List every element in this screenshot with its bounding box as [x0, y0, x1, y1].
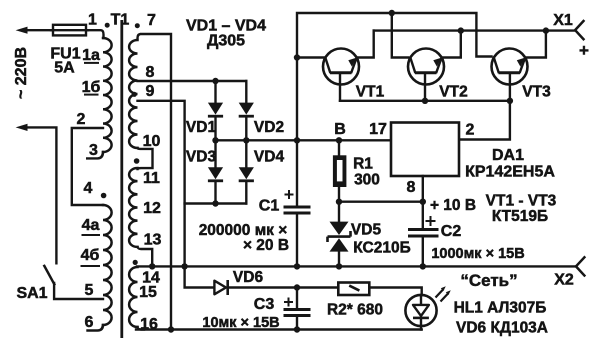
- wire VT2 collector drop: [392, 13, 408, 58]
- svg-text:6: 6: [85, 314, 94, 331]
- svg-text:1а: 1а: [82, 47, 100, 64]
- svg-text:+ 10 В: + 10 В: [430, 197, 476, 214]
- svg-text:15: 15: [139, 284, 157, 301]
- transformer T1 secondary winding section 7-10: [129, 40, 137, 148]
- wire DA1 pin 8: [422, 176, 424, 202]
- node R1 bottom: [336, 199, 342, 205]
- phase dot secondary top: [135, 23, 140, 28]
- svg-text:Х2: Х2: [554, 272, 574, 289]
- svg-text:T1: T1: [111, 12, 130, 29]
- node VD5/neg rail: [336, 263, 342, 269]
- connector X1: [575, 21, 583, 39]
- node C2/neg rail: [420, 263, 426, 269]
- svg-text:12: 12: [143, 200, 161, 217]
- diode VD6: [185, 266, 338, 295]
- transformer T1 primary winding lower section (taps 4-6): [88, 205, 112, 331]
- wire emitter line to X1: [374, 29, 575, 31]
- svg-text:КР142ЕН5А: КР142ЕН5А: [465, 164, 555, 181]
- diode VD4: [239, 140, 254, 203]
- node tap7/bottom rail: [168, 326, 174, 332]
- transformer T1 secondary winding section 11-13: [129, 168, 137, 247]
- node VT1 collector: [294, 54, 300, 60]
- node negative rail to X2: [137, 265, 576, 267]
- svg-text:+: +: [579, 41, 589, 60]
- node VT2 emitter: [458, 27, 464, 33]
- svg-text:8: 8: [407, 179, 416, 196]
- node VD3/bridge bottom: [212, 200, 218, 206]
- svg-text:В: В: [334, 121, 346, 138]
- node middle rail (rectifier output to B and DA1 pin 17): [216, 139, 392, 141]
- node tap8/VD1: [212, 78, 218, 84]
- phase dot secondary 11: [134, 158, 140, 164]
- transformer T1 secondary winding section 14-16: [129, 267, 144, 330]
- phase dot primary 4: [101, 193, 107, 199]
- capacitor C2: [408, 202, 439, 267]
- svg-text:С2: С2: [441, 223, 462, 240]
- svg-text:VT3: VT3: [522, 84, 551, 101]
- svg-text:7: 7: [147, 12, 156, 29]
- svg-text:VD5: VD5: [351, 222, 382, 239]
- svg-text:2: 2: [77, 111, 86, 128]
- mains input arrow (top line to ~220V): [16, 27, 104, 38]
- node bridge bottom rail: [185, 202, 247, 204]
- svg-text:300: 300: [354, 172, 380, 189]
- svg-text:1000мк × 15В: 1000мк × 15В: [431, 246, 524, 262]
- node VT3 base / pin2 riser: [507, 98, 513, 104]
- wire tap8 to rectifier: [138, 80, 247, 82]
- node VD6/C3: [294, 284, 300, 290]
- svg-text:VT1 - VT3: VT1 - VT3: [486, 193, 557, 210]
- svg-text:× 20 В: × 20 В: [243, 237, 289, 254]
- mains input arrow (lower, to switch SA1): [16, 124, 57, 263]
- svg-text:DA1: DA1: [492, 147, 524, 164]
- svg-text:4а: 4а: [82, 217, 100, 234]
- phase dot primary top: [105, 23, 110, 28]
- svg-text:“Сеть”: “Сеть”: [460, 271, 517, 290]
- LED HL1: [405, 286, 450, 329]
- node C1/mid rail: [294, 137, 300, 143]
- svg-text:VD2: VD2: [254, 119, 284, 136]
- transformer T1 primary winding upper section (taps 1-3): [87, 38, 111, 158]
- svg-text:1: 1: [88, 12, 97, 29]
- wire tap13 lead: [138, 247, 153, 267]
- svg-text:3: 3: [89, 142, 98, 159]
- node B: [336, 137, 342, 143]
- svg-text:17: 17: [369, 121, 387, 138]
- node VT2 collector/top rail: [389, 10, 395, 16]
- svg-text:КТ519Б: КТ519Б: [492, 208, 548, 225]
- svg-text:2: 2: [466, 122, 475, 139]
- wire tap7 top lead down to bottom rail: [138, 34, 172, 330]
- node bottom rail (tap16 to HL1): [136, 328, 422, 330]
- node VT2 base: [422, 98, 428, 104]
- diode VD1: [208, 81, 223, 140]
- svg-text:VD6: VD6: [233, 269, 264, 286]
- connector X2: [576, 257, 584, 275]
- node C1/neg rail: [294, 263, 300, 269]
- regulator DA1 box: [391, 123, 459, 177]
- node tap9/neg rail: [181, 263, 187, 269]
- wire tap9 down to negative rail: [138, 101, 185, 267]
- svg-text:КС210Б: КС210Б: [353, 240, 410, 257]
- svg-text:10мк × 15В: 10мк × 15В: [202, 315, 279, 331]
- node VT3 emitter: [543, 27, 549, 33]
- svg-text:4б: 4б: [81, 247, 100, 264]
- capacitor C3: [284, 288, 311, 330]
- svg-text:11: 11: [143, 170, 160, 187]
- capacitor C1: [284, 140, 311, 266]
- svg-text:VT1: VT1: [356, 84, 385, 101]
- svg-text:VT2: VT2: [439, 84, 467, 101]
- svg-text:R2* 680: R2* 680: [327, 302, 383, 319]
- wire base rail to DA1 pin 2: [459, 101, 510, 140]
- transformer core: [120, 20, 123, 338]
- resistor R1: [333, 140, 347, 201]
- node R1 bottom / pin 8: [339, 200, 423, 202]
- phase dot secondary 9: [132, 92, 137, 97]
- transistor VT1: [297, 31, 374, 101]
- svg-text:Х1: Х1: [553, 12, 573, 29]
- svg-text:13: 13: [144, 232, 162, 249]
- resistor R2: [338, 283, 421, 296]
- transistor VT3: [492, 31, 546, 101]
- node C3/bottom rail: [294, 326, 300, 332]
- svg-text:5: 5: [85, 282, 94, 299]
- fuse FU1: [51, 25, 88, 36]
- svg-text:R1: R1: [353, 156, 373, 173]
- node VD1/mid rail: [212, 137, 218, 143]
- svg-text:VD1: VD1: [186, 119, 217, 136]
- svg-text:С3: С3: [254, 296, 275, 313]
- svg-text:9: 9: [146, 83, 155, 100]
- wire tap10 U-link: [138, 148, 153, 169]
- transistor VT2: [408, 31, 461, 101]
- svg-text:VD6 КД103А: VD6 КД103А: [456, 320, 548, 337]
- svg-text:SA1: SA1: [16, 285, 47, 302]
- phase dot secondary 14: [133, 260, 138, 265]
- svg-text:HL1 АЛ307Б: HL1 АЛ307Б: [454, 300, 547, 317]
- svg-text:Д305: Д305: [207, 33, 245, 50]
- node base rail: [340, 100, 510, 102]
- zener VD5 (symmetric): [328, 202, 351, 267]
- svg-text:8: 8: [146, 64, 155, 81]
- svg-text:~ 220В: ~ 220В: [13, 47, 30, 99]
- wire collector riser / top rail: [297, 13, 492, 140]
- svg-text:4: 4: [84, 180, 93, 197]
- node pin8/C2: [420, 199, 426, 205]
- svg-text:1б: 1б: [82, 79, 101, 96]
- svg-text:С1: С1: [259, 198, 280, 215]
- node VD2/mid rail: [243, 137, 249, 143]
- wire tap2 to tap4 link: [72, 128, 103, 205]
- svg-text:10: 10: [143, 133, 161, 150]
- node tap13/neg rail: [149, 263, 155, 269]
- svg-text:VD3: VD3: [186, 149, 217, 166]
- diode VD3: [208, 140, 223, 203]
- svg-text:VD4: VD4: [254, 149, 285, 166]
- svg-text:5А: 5А: [54, 60, 75, 77]
- diode VD2: [239, 81, 254, 140]
- switch SA1: [44, 266, 103, 299]
